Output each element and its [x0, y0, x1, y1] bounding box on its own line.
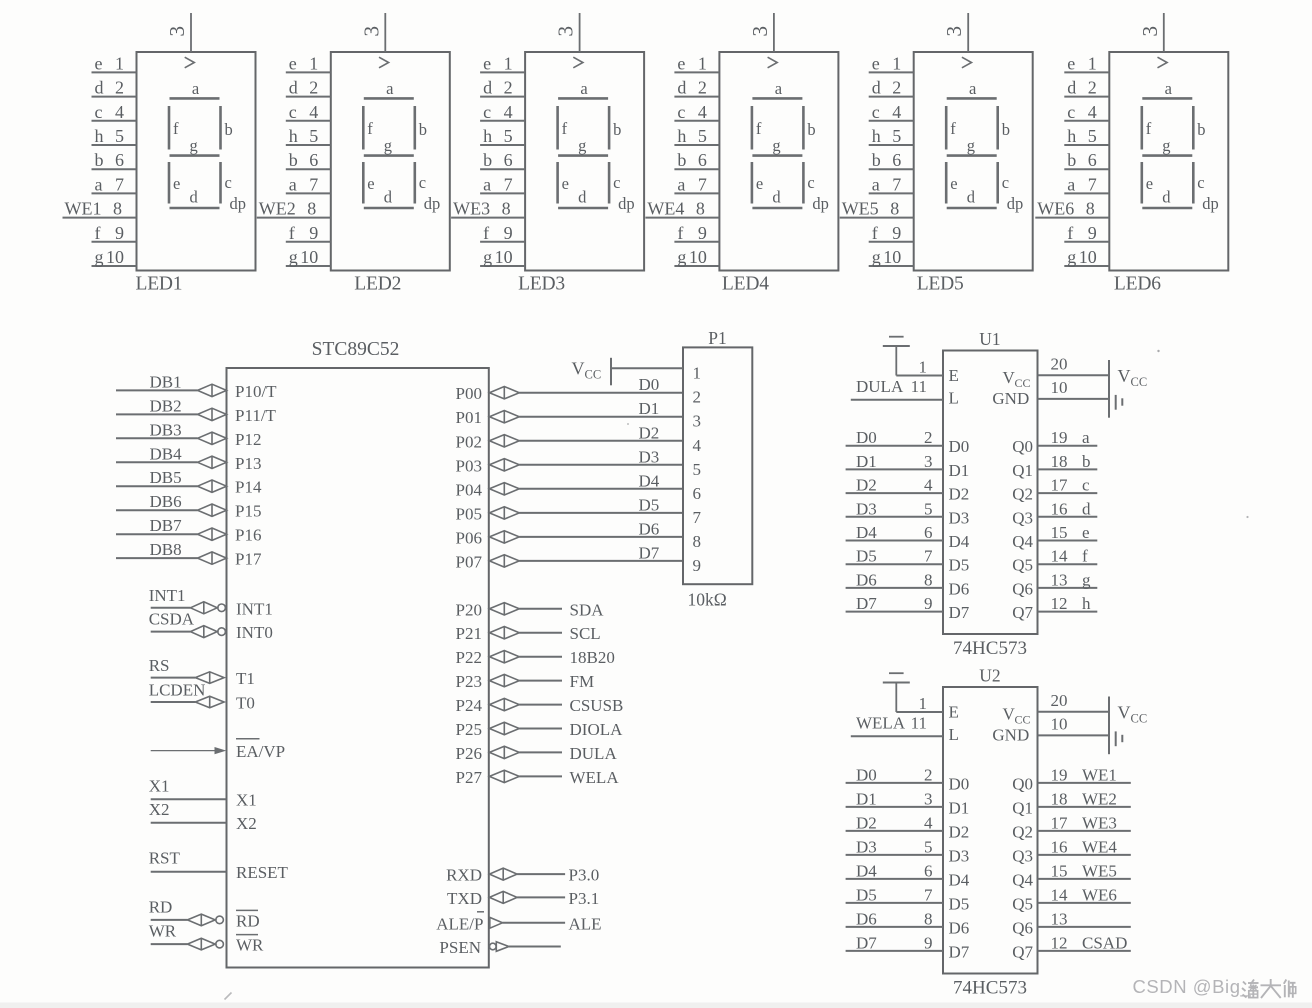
svg-text:h: h — [289, 126, 298, 146]
svg-text:e: e — [367, 174, 374, 193]
svg-text:P22: P22 — [456, 648, 482, 667]
svg-text:11: 11 — [911, 377, 927, 396]
svg-text:DB3: DB3 — [150, 420, 182, 439]
svg-text:d: d — [95, 78, 104, 98]
svg-text:CC: CC — [585, 368, 602, 382]
svg-text:f: f — [756, 119, 762, 138]
svg-text:P02: P02 — [456, 432, 482, 451]
svg-text:4: 4 — [924, 476, 933, 495]
svg-text:D2: D2 — [856, 813, 877, 832]
svg-text:e: e — [950, 174, 957, 193]
svg-text:T0: T0 — [236, 694, 255, 713]
svg-text:P15: P15 — [235, 502, 261, 521]
svg-text:CSAD: CSAD — [1082, 933, 1127, 952]
svg-text:a: a — [580, 79, 588, 98]
svg-text:Q3: Q3 — [1012, 846, 1033, 865]
svg-text:P14: P14 — [235, 478, 262, 497]
svg-text:D1: D1 — [949, 461, 970, 480]
svg-text:WE3: WE3 — [1082, 813, 1117, 832]
svg-text:1: 1 — [1088, 53, 1097, 73]
svg-text:1: 1 — [115, 53, 124, 73]
svg-text:18: 18 — [1051, 789, 1068, 808]
svg-text:RESET: RESET — [236, 863, 289, 882]
svg-text:P1: P1 — [708, 328, 726, 348]
svg-text:6: 6 — [309, 150, 318, 170]
svg-text:D4: D4 — [949, 870, 970, 889]
svg-text:a: a — [1082, 428, 1090, 447]
svg-text:f: f — [1082, 547, 1088, 566]
svg-text:D1: D1 — [856, 452, 877, 471]
svg-text:6: 6 — [504, 150, 513, 170]
svg-text:6: 6 — [1088, 150, 1097, 170]
svg-text:5: 5 — [892, 126, 901, 146]
svg-text:d: d — [1067, 78, 1076, 98]
svg-text:DB2: DB2 — [150, 396, 182, 415]
svg-text:1: 1 — [504, 53, 513, 73]
svg-text:4: 4 — [698, 102, 707, 122]
svg-text:3: 3 — [359, 26, 383, 37]
svg-text:8: 8 — [924, 570, 933, 589]
svg-text:18: 18 — [1051, 452, 1068, 471]
svg-text:6: 6 — [924, 861, 933, 880]
svg-text:P03: P03 — [456, 456, 482, 475]
svg-text:15: 15 — [1051, 861, 1068, 880]
svg-text:b: b — [483, 150, 492, 170]
svg-text:a: a — [872, 174, 880, 194]
svg-text:CC: CC — [1015, 376, 1031, 390]
svg-text:4: 4 — [924, 813, 933, 832]
svg-text:dp: dp — [812, 194, 829, 213]
svg-text:D2: D2 — [949, 822, 970, 841]
svg-text:WE2: WE2 — [1082, 789, 1117, 808]
svg-text:P23: P23 — [456, 672, 482, 691]
svg-text:RS: RS — [149, 656, 170, 675]
svg-text:5: 5 — [924, 499, 933, 518]
svg-text:h: h — [1067, 126, 1076, 146]
svg-text:9: 9 — [924, 933, 933, 952]
svg-text:c: c — [483, 102, 491, 122]
svg-text:f: f — [562, 119, 568, 138]
svg-text:D4: D4 — [639, 471, 660, 490]
svg-text:dp: dp — [1007, 194, 1024, 213]
svg-text:g: g — [967, 136, 975, 155]
svg-text:2: 2 — [924, 428, 933, 447]
svg-text:7: 7 — [115, 174, 124, 194]
svg-text:8: 8 — [924, 909, 933, 928]
svg-text:D0: D0 — [856, 428, 877, 447]
svg-text:19: 19 — [1051, 765, 1068, 784]
svg-text:d: d — [483, 78, 492, 98]
svg-text:RST: RST — [149, 849, 181, 868]
svg-text:SDA: SDA — [570, 600, 605, 619]
svg-text:d: d — [578, 188, 587, 207]
svg-text:c: c — [225, 173, 232, 192]
svg-text:a: a — [289, 174, 297, 194]
svg-text:D1: D1 — [949, 798, 970, 817]
svg-text:DULA: DULA — [856, 377, 904, 396]
svg-text:10: 10 — [495, 247, 513, 267]
svg-text:4: 4 — [504, 102, 513, 122]
svg-text:U2: U2 — [979, 666, 1000, 686]
svg-text:b: b — [872, 150, 881, 170]
svg-text:g: g — [578, 136, 586, 155]
svg-text:4: 4 — [309, 102, 318, 122]
svg-text:f: f — [289, 223, 295, 243]
svg-text:WE1: WE1 — [1082, 765, 1117, 784]
svg-text:1: 1 — [693, 363, 702, 382]
svg-text:h: h — [1082, 594, 1091, 613]
svg-text:e: e — [872, 53, 880, 73]
svg-text:2: 2 — [115, 78, 124, 98]
svg-text:6: 6 — [924, 523, 933, 542]
svg-text:Q6: Q6 — [1012, 918, 1033, 937]
svg-text:WE1: WE1 — [65, 199, 102, 219]
svg-text:c: c — [872, 102, 880, 122]
svg-text:Q7: Q7 — [1012, 942, 1033, 961]
svg-text:DB1: DB1 — [150, 372, 182, 391]
svg-text:WE3: WE3 — [453, 199, 490, 219]
svg-text:8: 8 — [693, 532, 702, 551]
svg-text:e: e — [289, 53, 297, 73]
svg-text:WR: WR — [149, 922, 177, 941]
svg-text:b: b — [1082, 452, 1091, 471]
svg-text:10: 10 — [1051, 715, 1068, 734]
svg-text:WR: WR — [236, 936, 264, 955]
svg-text:9: 9 — [115, 223, 124, 243]
svg-text:P11/T: P11/T — [235, 406, 277, 425]
svg-text:Q2: Q2 — [1012, 822, 1033, 841]
svg-text:8: 8 — [113, 199, 122, 219]
svg-text:D5: D5 — [856, 885, 877, 904]
svg-text:WE6: WE6 — [1082, 885, 1117, 904]
svg-text:L: L — [949, 725, 959, 744]
svg-text:b: b — [419, 120, 427, 139]
svg-text:9: 9 — [1088, 223, 1097, 243]
svg-text:d: d — [772, 188, 781, 207]
svg-text:1: 1 — [919, 694, 928, 713]
svg-text:D3: D3 — [856, 499, 877, 518]
svg-text:E: E — [949, 703, 959, 722]
svg-text:f: f — [173, 119, 179, 138]
svg-text:WE5: WE5 — [1082, 861, 1117, 880]
svg-text:c: c — [1002, 173, 1009, 192]
svg-text:b: b — [289, 150, 298, 170]
svg-text:LED6: LED6 — [1114, 273, 1161, 294]
svg-text:f: f — [950, 119, 956, 138]
svg-text:GND: GND — [992, 726, 1029, 745]
svg-text:P3.1: P3.1 — [569, 889, 600, 908]
svg-text:WE6: WE6 — [1037, 199, 1074, 219]
svg-text:D7: D7 — [949, 942, 970, 961]
svg-text:D6: D6 — [949, 918, 970, 937]
svg-text:5: 5 — [309, 126, 318, 146]
svg-text:10: 10 — [883, 247, 901, 267]
svg-text:16: 16 — [1051, 499, 1068, 518]
svg-text:D4: D4 — [856, 861, 877, 880]
svg-text:7: 7 — [892, 174, 901, 194]
svg-text:CC: CC — [1131, 712, 1148, 726]
svg-text:10: 10 — [689, 247, 707, 267]
svg-text:D2: D2 — [949, 485, 970, 504]
svg-text:4: 4 — [892, 102, 901, 122]
svg-text:10: 10 — [1079, 247, 1097, 267]
svg-text:1: 1 — [698, 53, 707, 73]
svg-text:3: 3 — [554, 26, 578, 37]
svg-text:19: 19 — [1051, 428, 1068, 447]
svg-text:8: 8 — [307, 199, 316, 219]
svg-text:b: b — [1067, 150, 1076, 170]
svg-text:7: 7 — [698, 174, 707, 194]
svg-text:CC: CC — [1015, 713, 1031, 727]
svg-text:CC: CC — [1131, 375, 1148, 389]
svg-text:D3: D3 — [856, 837, 877, 856]
svg-text:h: h — [95, 126, 104, 146]
svg-text:DIOLA: DIOLA — [570, 720, 624, 739]
svg-text:D1: D1 — [856, 789, 877, 808]
svg-text:4: 4 — [115, 102, 124, 122]
svg-text:a: a — [677, 174, 685, 194]
svg-text:P07: P07 — [456, 552, 483, 571]
svg-text:h: h — [483, 126, 492, 146]
svg-text:Q1: Q1 — [1012, 461, 1033, 480]
svg-text:g: g — [677, 247, 686, 267]
svg-text:P20: P20 — [456, 600, 482, 619]
svg-text:g: g — [772, 136, 780, 155]
svg-text:3: 3 — [748, 26, 772, 37]
svg-text:b: b — [95, 150, 104, 170]
svg-text:DULA: DULA — [570, 744, 618, 763]
svg-text:D5: D5 — [949, 894, 970, 913]
svg-text:TXD: TXD — [447, 889, 482, 908]
svg-text:7: 7 — [1088, 174, 1097, 194]
svg-text:5: 5 — [693, 460, 702, 479]
svg-text:DB8: DB8 — [150, 540, 182, 559]
svg-text:2: 2 — [309, 78, 318, 98]
svg-text:12: 12 — [1051, 594, 1068, 613]
svg-text:d: d — [872, 78, 881, 98]
svg-text:18B20: 18B20 — [570, 648, 615, 667]
svg-text:2: 2 — [693, 388, 702, 407]
svg-text:e: e — [1082, 523, 1090, 542]
svg-text:c: c — [613, 173, 620, 192]
svg-text:D0: D0 — [949, 774, 970, 793]
svg-text:D6: D6 — [856, 909, 877, 928]
svg-text:4: 4 — [693, 436, 702, 455]
svg-text:g: g — [190, 136, 198, 155]
svg-text:3: 3 — [1138, 26, 1162, 37]
svg-text:b: b — [677, 150, 686, 170]
svg-text:DB4: DB4 — [150, 444, 183, 463]
svg-text:2: 2 — [504, 78, 513, 98]
svg-text:SCL: SCL — [570, 624, 601, 643]
svg-text:14: 14 — [1051, 547, 1069, 566]
svg-text:P00: P00 — [456, 384, 482, 403]
svg-text:D7: D7 — [949, 603, 970, 622]
svg-text:D4: D4 — [856, 523, 877, 542]
svg-text:2: 2 — [924, 765, 933, 784]
svg-text:d: d — [677, 78, 686, 98]
svg-text:7: 7 — [924, 885, 933, 904]
svg-text:D7: D7 — [856, 933, 877, 952]
svg-text:Q4: Q4 — [1012, 870, 1033, 889]
svg-text:c: c — [1082, 476, 1090, 495]
svg-text:X1: X1 — [149, 777, 170, 796]
svg-text:f: f — [483, 223, 489, 243]
svg-text:f: f — [367, 119, 373, 138]
svg-text:P17: P17 — [235, 550, 262, 569]
svg-text:D7: D7 — [639, 543, 660, 562]
svg-text:5: 5 — [504, 126, 513, 146]
svg-text:3: 3 — [942, 26, 966, 37]
svg-text:P16: P16 — [235, 526, 261, 545]
svg-text:DB7: DB7 — [150, 516, 183, 535]
svg-text:P05: P05 — [456, 504, 482, 523]
svg-text:E: E — [949, 366, 959, 385]
svg-text:f: f — [677, 223, 683, 243]
svg-text:P06: P06 — [456, 528, 482, 547]
svg-text:17: 17 — [1051, 813, 1069, 832]
svg-text:c: c — [289, 102, 297, 122]
svg-text:D0: D0 — [856, 765, 877, 784]
svg-text:6: 6 — [115, 150, 124, 170]
svg-text:d: d — [289, 78, 298, 98]
svg-text:20: 20 — [1051, 355, 1068, 374]
svg-text:4: 4 — [1088, 102, 1097, 122]
svg-text:g: g — [872, 247, 881, 267]
svg-text:6: 6 — [892, 150, 901, 170]
svg-text:D5: D5 — [949, 556, 970, 575]
svg-text:Q4: Q4 — [1012, 532, 1033, 551]
svg-text:3: 3 — [924, 789, 933, 808]
svg-text:WE4: WE4 — [647, 199, 684, 219]
svg-text:d: d — [190, 188, 199, 207]
svg-text:D3: D3 — [639, 447, 660, 466]
svg-text:e: e — [483, 53, 491, 73]
svg-text:5: 5 — [115, 126, 124, 146]
svg-text:e: e — [756, 174, 763, 193]
svg-text:g: g — [1067, 247, 1076, 267]
svg-text:5: 5 — [1088, 126, 1097, 146]
svg-text:e: e — [95, 53, 103, 73]
svg-text:7: 7 — [309, 174, 318, 194]
svg-text:WE2: WE2 — [259, 199, 296, 219]
svg-text:h: h — [677, 126, 686, 146]
svg-text:INT1: INT1 — [149, 586, 186, 605]
svg-text:EA/VP: EA/VP — [236, 742, 285, 761]
svg-text:LED2: LED2 — [354, 273, 401, 294]
svg-text:ALE: ALE — [569, 914, 602, 933]
svg-text:2: 2 — [1088, 78, 1097, 98]
svg-text:h: h — [872, 126, 881, 146]
svg-text:5: 5 — [698, 126, 707, 146]
svg-text:f: f — [1146, 119, 1152, 138]
svg-text:ALE/P: ALE/P — [436, 914, 483, 933]
svg-text:Q6: Q6 — [1012, 579, 1033, 598]
svg-text:9: 9 — [693, 556, 702, 575]
svg-text:15: 15 — [1051, 523, 1068, 542]
svg-text:20: 20 — [1051, 691, 1068, 710]
svg-text:f: f — [872, 223, 878, 243]
svg-text:D6: D6 — [639, 519, 660, 538]
svg-text:10: 10 — [300, 247, 318, 267]
svg-text:g: g — [95, 247, 104, 267]
svg-text:D6: D6 — [949, 579, 970, 598]
svg-text:INT0: INT0 — [236, 623, 273, 642]
svg-text:dp: dp — [1202, 194, 1219, 213]
svg-text:c: c — [807, 173, 814, 192]
svg-text:D2: D2 — [856, 476, 877, 495]
svg-text:V: V — [572, 359, 585, 379]
svg-text:P27: P27 — [456, 768, 483, 787]
svg-text:10: 10 — [106, 247, 124, 267]
svg-text:CSDN @Big_: CSDN @Big_ — [1133, 976, 1252, 998]
svg-text:1: 1 — [892, 53, 901, 73]
svg-text:a: a — [1165, 79, 1173, 98]
svg-text:D3: D3 — [949, 508, 970, 527]
svg-text:3: 3 — [924, 452, 933, 471]
svg-text:P25: P25 — [456, 720, 482, 739]
svg-text:7: 7 — [693, 508, 702, 527]
svg-text:g: g — [289, 247, 298, 267]
svg-text:7: 7 — [924, 547, 933, 566]
svg-text:13: 13 — [1051, 570, 1068, 589]
svg-text:74HC573: 74HC573 — [953, 638, 1027, 659]
svg-text:D4: D4 — [949, 532, 970, 551]
svg-text:CSUSB: CSUSB — [570, 696, 624, 715]
svg-text:D3: D3 — [949, 846, 970, 865]
svg-text:9: 9 — [309, 223, 318, 243]
svg-text:Q1: Q1 — [1012, 798, 1033, 817]
svg-text:P24: P24 — [456, 696, 483, 715]
svg-text:a: a — [969, 79, 977, 98]
svg-text:LCDEN: LCDEN — [149, 681, 206, 700]
svg-text:b: b — [1197, 120, 1205, 139]
svg-text:9: 9 — [892, 223, 901, 243]
svg-text:g: g — [483, 247, 492, 267]
svg-text:D5: D5 — [639, 495, 660, 514]
svg-text:DB6: DB6 — [150, 492, 182, 511]
svg-text:X2: X2 — [236, 814, 257, 833]
svg-text:P10/T: P10/T — [235, 382, 277, 401]
svg-text:14: 14 — [1051, 885, 1069, 904]
svg-text:g: g — [1082, 570, 1091, 589]
svg-text:b: b — [1002, 120, 1010, 139]
svg-text:13: 13 — [1051, 909, 1068, 928]
svg-text:Q3: Q3 — [1012, 508, 1033, 527]
svg-text:12: 12 — [1051, 933, 1068, 952]
svg-text:P26: P26 — [456, 744, 482, 763]
svg-text:8: 8 — [502, 199, 511, 219]
svg-text:D0: D0 — [949, 437, 970, 456]
svg-text:f: f — [1067, 223, 1073, 243]
svg-text:P01: P01 — [456, 408, 482, 427]
svg-text:FM: FM — [570, 672, 595, 691]
svg-text:X1: X1 — [236, 791, 257, 810]
svg-text:b: b — [613, 120, 621, 139]
svg-text:GND: GND — [992, 389, 1029, 408]
svg-text:7: 7 — [504, 174, 513, 194]
svg-text:8: 8 — [890, 199, 899, 219]
svg-text:9: 9 — [698, 223, 707, 243]
svg-text:a: a — [95, 174, 103, 194]
svg-text:10: 10 — [1051, 378, 1068, 397]
svg-text:LED1: LED1 — [136, 273, 183, 294]
svg-text:c: c — [419, 173, 426, 192]
svg-text:c: c — [1067, 102, 1075, 122]
svg-text:e: e — [677, 53, 685, 73]
svg-text:f: f — [95, 223, 101, 243]
svg-text:RXD: RXD — [446, 866, 482, 885]
